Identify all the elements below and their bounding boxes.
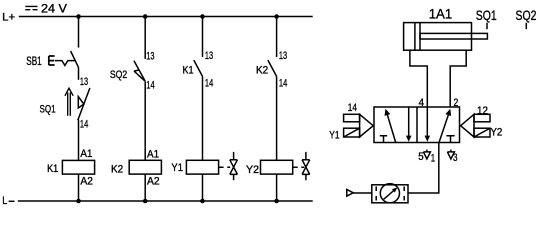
svg-text:14: 14 — [279, 77, 287, 89]
wire Y1 coil to L- — [202, 174, 204, 201]
svg-text:14: 14 — [348, 102, 357, 114]
rail L+ — [19, 16, 313, 18]
air service unit — [372, 184, 408, 203]
pushbutton SB1 — [49, 51, 79, 67]
valve 5/2 body — [374, 107, 460, 143]
wire SQ2 to K2 coil — [144, 81, 146, 160]
pipe valve port 1 to air service unit — [408, 143, 439, 194]
svg-text:Y1: Y1 — [171, 162, 183, 174]
exhaust port 5 — [423, 150, 430, 159]
wire Y2 coil to L- — [276, 174, 278, 201]
svg-text:SB1: SB1 — [26, 56, 41, 68]
svg-text:14: 14 — [205, 77, 213, 89]
pilot solenoid Y1 — [344, 114, 374, 137]
wire branch3 top stub — [202, 17, 204, 58]
relay coil K1 — [62, 160, 94, 174]
solenoid coil Y2 — [261, 160, 293, 174]
svg-text:13: 13 — [80, 76, 88, 88]
node branch2 bottom — [143, 199, 148, 204]
svg-text:2: 2 — [454, 97, 459, 109]
relay contact K1 (NO) — [194, 60, 203, 76]
position mark SQ1 — [486, 23, 488, 29]
relay contact K2 (NO) — [268, 60, 277, 76]
svg-text:5: 5 — [418, 151, 423, 163]
rail L- — [18, 200, 313, 202]
svg-text:4: 4 — [419, 97, 424, 109]
svg-text:SQ1: SQ1 — [40, 103, 56, 115]
exhaust port 3 — [447, 150, 454, 159]
pilot solenoid Y2 — [461, 114, 490, 137]
wire air source to service unit — [353, 192, 372, 194]
svg-text:12: 12 — [477, 105, 488, 117]
svg-text:A2: A2 — [147, 176, 160, 188]
wire branch4 top stub — [276, 17, 278, 58]
position mark SQ2 — [525, 23, 527, 29]
compressed air source — [347, 190, 353, 197]
wire branch1 top stub — [78, 17, 80, 48]
svg-text:A1: A1 — [147, 149, 159, 161]
DC supply symbol 24V — [25, 6, 37, 9]
svg-text:Y1: Y1 — [329, 129, 339, 141]
pipe cylinder left port to valve port 4 — [410, 50, 427, 107]
valve left cell: path 1 to 4 (arrow up) — [385, 109, 396, 143]
svg-text:Y2: Y2 — [246, 164, 259, 176]
node branch3 bottom — [200, 199, 205, 204]
suppressor of Y1 — [219, 152, 238, 180]
node branch4 top — [274, 14, 279, 19]
svg-text:13: 13 — [279, 50, 287, 62]
cylinder piston — [415, 23, 420, 51]
svg-text:K2: K2 — [256, 65, 268, 77]
svg-text:SQ2: SQ2 — [110, 69, 127, 81]
relay coil K2 — [129, 160, 161, 174]
valve right cell: path 4 to 5 (arrow down) — [425, 107, 431, 142]
svg-text:14: 14 — [146, 80, 154, 92]
svg-text:1: 1 — [431, 153, 435, 165]
svg-text:1A1: 1A1 — [429, 6, 453, 22]
node branch1 top — [76, 14, 81, 19]
cylinder piston rod — [420, 33, 487, 39]
actuation arrow SQ1 — [65, 88, 73, 116]
wire branch2 top stub — [144, 17, 146, 59]
node branch2 top — [143, 14, 148, 19]
node branch1 bottom — [76, 199, 81, 204]
svg-text:13: 13 — [146, 51, 154, 63]
svg-text:14: 14 — [80, 118, 88, 130]
svg-text:SQ2: SQ2 — [516, 7, 537, 23]
wire SB1 to SQ1 — [78, 67, 80, 79]
node branch3 top — [200, 14, 205, 19]
suppressor of Y2 — [293, 152, 310, 180]
svg-text:L: L — [2, 195, 7, 207]
wire K1 coil to L- — [78, 174, 80, 201]
svg-text:13: 13 — [205, 50, 213, 62]
limit switch contact SQ1 (actuated) — [78, 88, 90, 120]
svg-text:A1: A1 — [80, 148, 92, 160]
svg-text:K1: K1 — [47, 163, 58, 175]
svg-text:3: 3 — [453, 152, 458, 164]
cylinder 1A1 body — [404, 23, 472, 51]
valve right cell: path 1 to 2 (arrow up) — [439, 109, 451, 143]
wire K2 coil to L- — [144, 174, 146, 201]
limit switch contact SQ2 — [134, 61, 145, 82]
solenoid coil Y1 — [186, 160, 218, 174]
svg-text:A2: A2 — [80, 175, 93, 187]
valve left cell: port 5 blocked — [380, 136, 387, 143]
svg-text:SQ1: SQ1 — [476, 7, 497, 23]
valve cell divider — [416, 107, 418, 143]
svg-text:Y2: Y2 — [490, 126, 502, 138]
svg-text:K2: K2 — [111, 164, 123, 176]
wire K2 contact to Y2 coil — [276, 76, 278, 160]
svg-text:L+: L+ — [2, 11, 15, 23]
pipe cylinder right port to valve port 2 — [450, 50, 466, 107]
svg-text:K1: K1 — [183, 65, 194, 77]
svg-text:24 V: 24 V — [41, 3, 67, 15]
node branch4 bottom — [274, 199, 279, 204]
wire K1 contact to Y1 coil — [202, 76, 204, 160]
valve left cell: path 2 to 3 (arrow down) — [406, 107, 412, 142]
valve right cell: port 3 blocked — [446, 136, 454, 143]
wire SQ1 to K1 coil — [78, 120, 80, 161]
